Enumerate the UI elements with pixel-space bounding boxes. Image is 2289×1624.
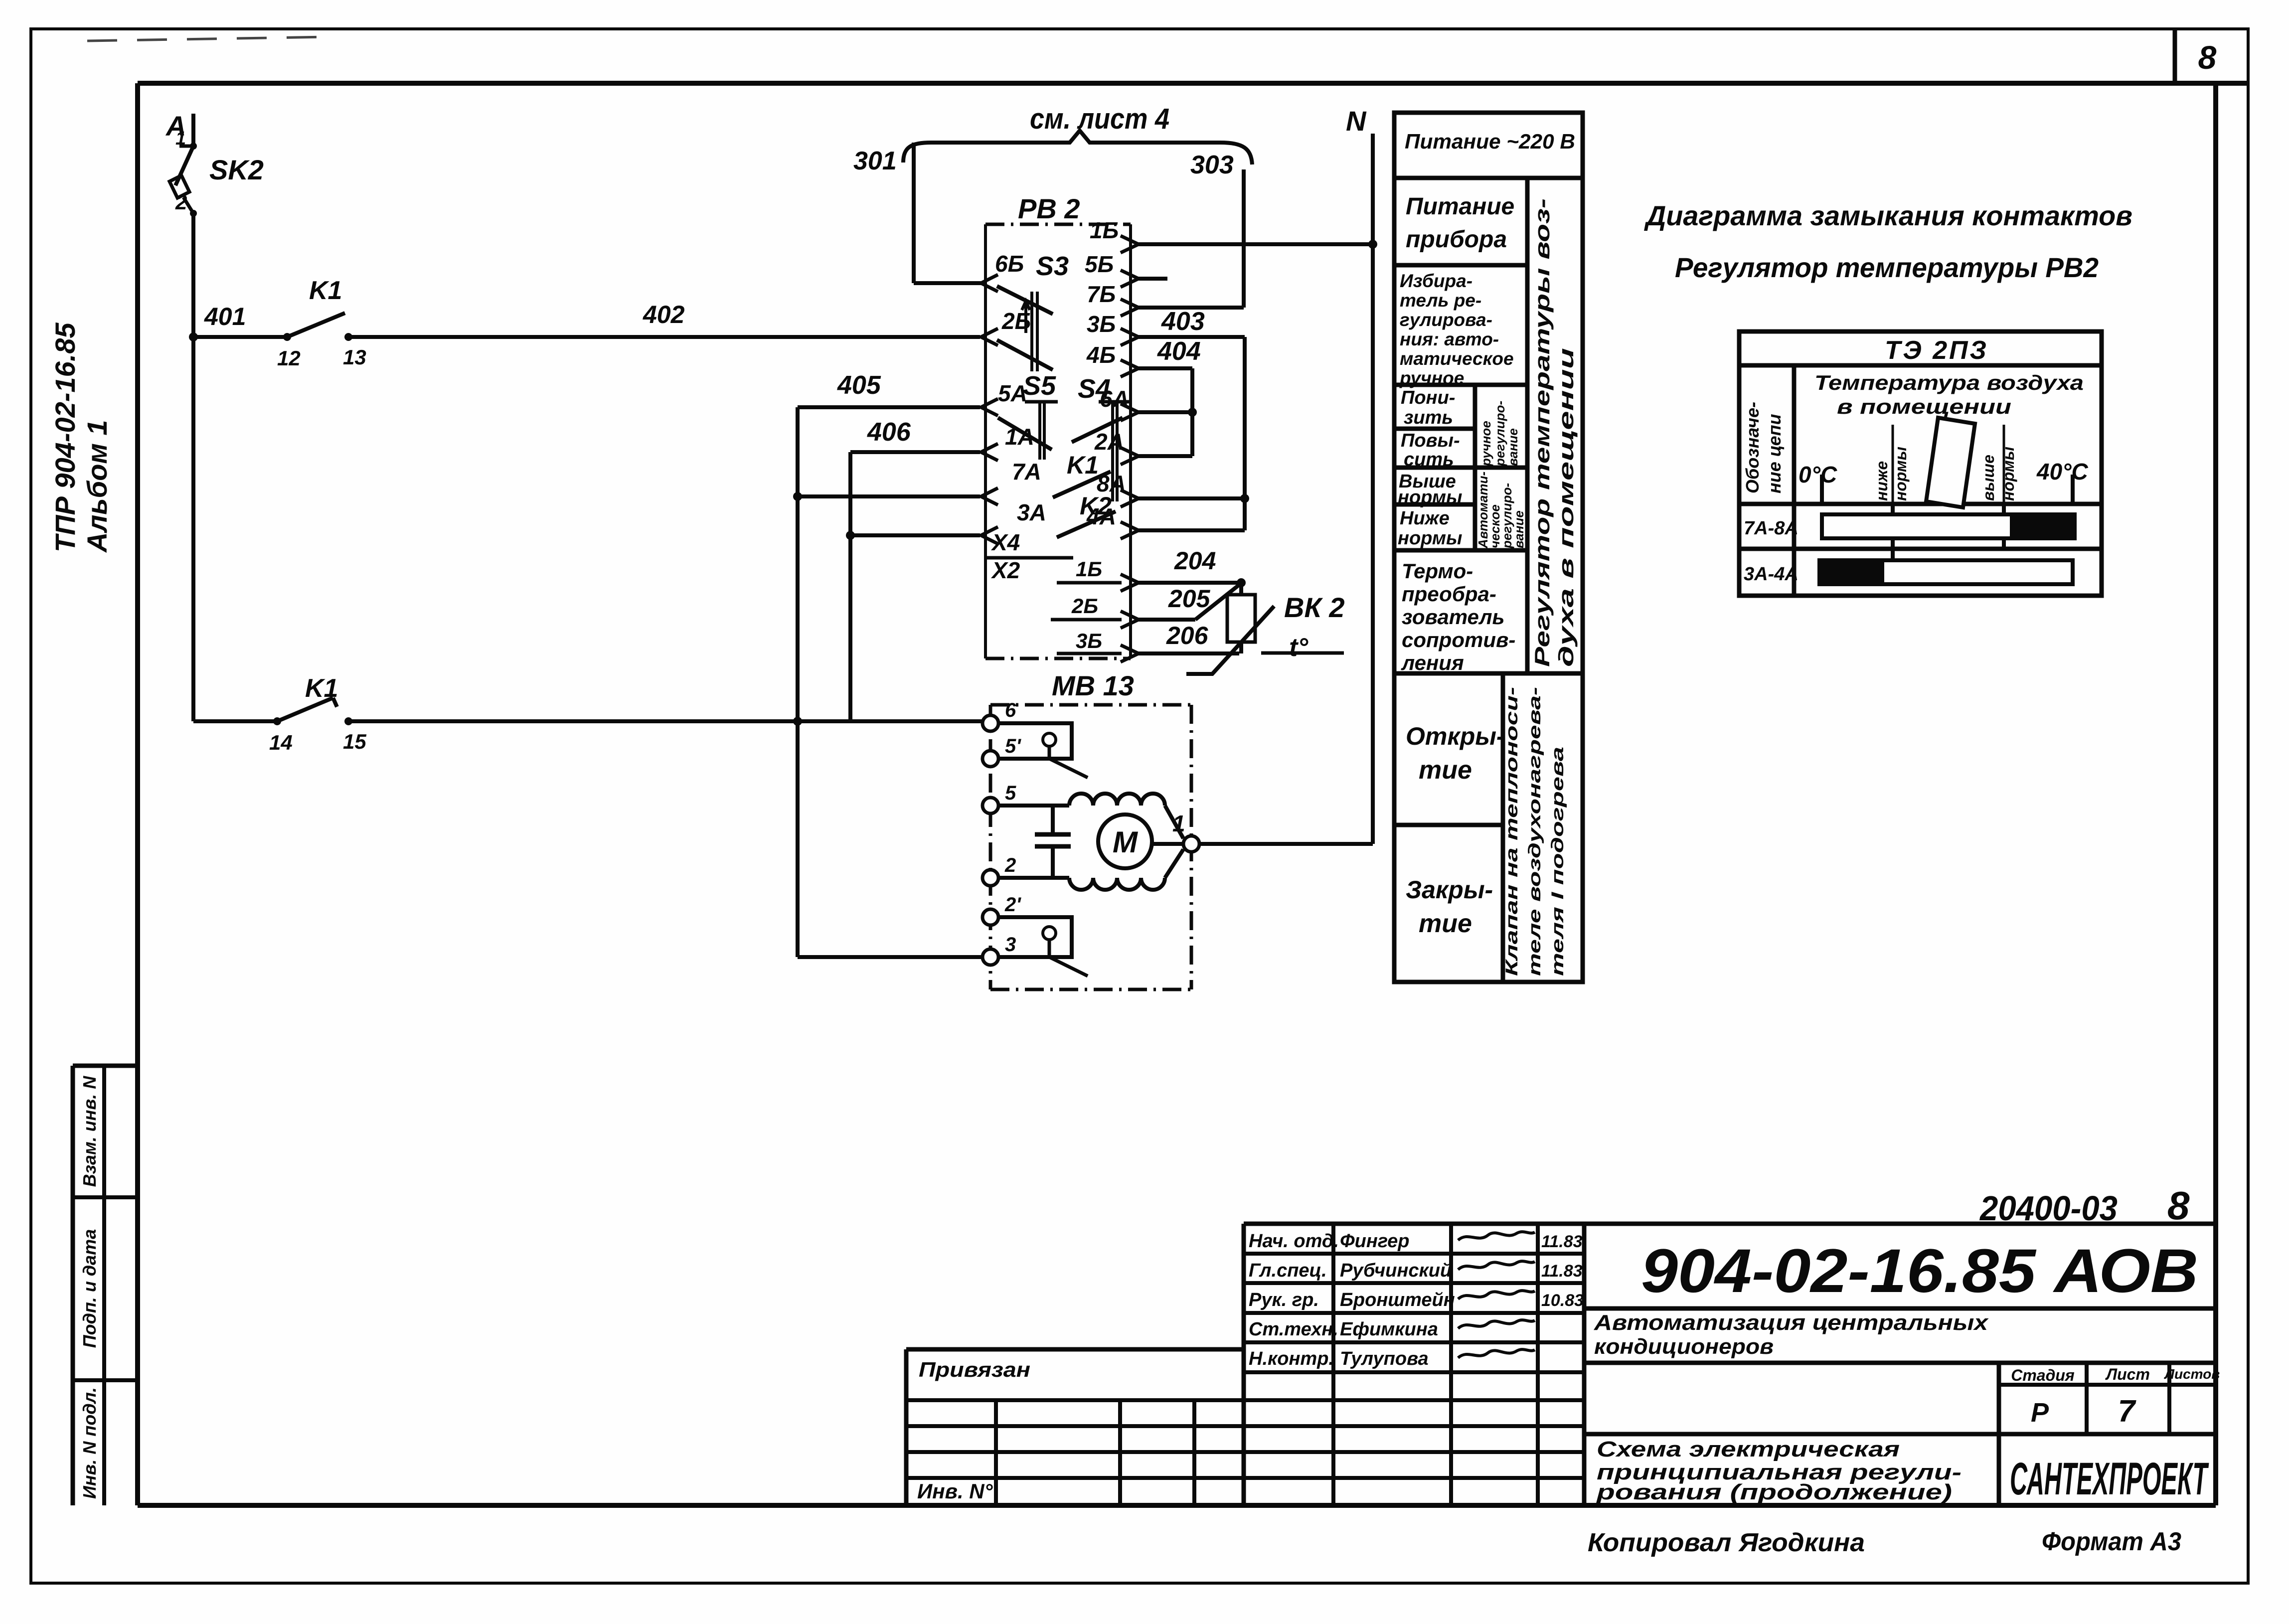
svg-text:Гл.спец.: Гл.спец. bbox=[1249, 1260, 1327, 1281]
svg-text:303: 303 bbox=[1190, 151, 1234, 179]
svg-text:7Б: 7Б bbox=[1087, 281, 1116, 307]
svg-text:2: 2 bbox=[1004, 854, 1016, 876]
svg-text:см. лист 4: см. лист 4 bbox=[1030, 103, 1169, 135]
svg-text:Бронштейн: Бронштейн bbox=[1340, 1290, 1455, 1310]
svg-text:403: 403 bbox=[1161, 307, 1205, 336]
svg-text:X4: X4 bbox=[990, 529, 1020, 555]
svg-text:ТЭ 2ПЗ: ТЭ 2ПЗ bbox=[1885, 336, 1988, 365]
svg-text:Регулятор температуры воз-: Регулятор температуры воз- bbox=[1530, 198, 1554, 667]
svg-text:ления: ления bbox=[1401, 651, 1464, 674]
svg-text:3Б: 3Б bbox=[1087, 311, 1116, 337]
svg-text:4Б: 4Б bbox=[1086, 342, 1116, 368]
svg-text:12: 12 bbox=[277, 346, 301, 370]
svg-text:2: 2 bbox=[175, 190, 187, 214]
svg-text:Альбом 1: Альбом 1 bbox=[81, 420, 113, 553]
svg-text:Копировал Ягодкина: Копировал Ягодкина bbox=[1588, 1528, 1865, 1557]
svg-text:Ефимкина: Ефимкина bbox=[1340, 1319, 1438, 1340]
svg-text:М: М bbox=[1113, 825, 1139, 859]
svg-text:SK2: SK2 bbox=[209, 154, 264, 185]
svg-text:N: N bbox=[1346, 105, 1367, 137]
svg-text:405: 405 bbox=[837, 371, 881, 400]
svg-text:2': 2' bbox=[1004, 894, 1021, 916]
svg-text:8: 8 bbox=[2167, 1183, 2190, 1228]
svg-text:8: 8 bbox=[2198, 39, 2217, 76]
svg-text:ТПР 904-02-16.85: ТПР 904-02-16.85 bbox=[49, 323, 81, 552]
svg-text:7: 7 bbox=[2118, 1394, 2136, 1429]
svg-text:Подп. и дата: Подп. и дата bbox=[79, 1229, 100, 1348]
svg-text:Ст.техн.: Ст.техн. bbox=[1249, 1319, 1338, 1340]
svg-text:40°С: 40°С bbox=[2036, 459, 2089, 485]
svg-text:Температура воздуха: Температура воздуха bbox=[1814, 371, 2084, 394]
svg-text:РВ 2: РВ 2 bbox=[1018, 193, 1080, 224]
svg-text:САНТЕХПРОЕКТ: САНТЕХПРОЕКТ bbox=[2010, 1454, 2209, 1504]
svg-text:15: 15 bbox=[343, 730, 366, 753]
svg-text:Стадия: Стадия bbox=[2011, 1366, 2075, 1384]
svg-text:904-02-16.85 АОВ: 904-02-16.85 АОВ bbox=[1641, 1237, 2198, 1305]
svg-text:1Б: 1Б bbox=[1076, 557, 1102, 581]
svg-text:духа в помещении: духа в помещении bbox=[1554, 348, 1578, 667]
svg-text:нормы: нормы bbox=[1398, 528, 1462, 549]
svg-text:Автоматизация центральных: Автоматизация центральных bbox=[1594, 1310, 1989, 1335]
svg-text:Диаграмма замыкания контакто: Диаграмма замыкания контактов bbox=[1644, 200, 2132, 231]
svg-text:Листов: Листов bbox=[2164, 1366, 2220, 1382]
svg-text:Н.контр.: Н.контр. bbox=[1249, 1348, 1334, 1369]
svg-text:K1: K1 bbox=[1067, 451, 1099, 479]
svg-text:5: 5 bbox=[1005, 782, 1016, 804]
svg-text:Термо-: Термо- bbox=[1402, 559, 1473, 583]
svg-text:7А-8А: 7А-8А bbox=[1744, 518, 1798, 539]
svg-text:Инв. N°: Инв. N° bbox=[917, 1479, 993, 1503]
svg-text:нормы: нормы bbox=[1999, 447, 2017, 501]
svg-text:6: 6 bbox=[1005, 699, 1016, 721]
svg-text:0°С: 0°С bbox=[1798, 462, 1837, 487]
svg-text:нормы: нормы bbox=[1398, 487, 1462, 508]
svg-text:тие: тие bbox=[1419, 909, 1472, 938]
svg-text:406: 406 bbox=[867, 418, 911, 447]
svg-text:Взам. инв. N: Взам. инв. N bbox=[79, 1076, 100, 1187]
svg-text:Регулятор температуры РВ2: Регулятор температуры РВ2 bbox=[1675, 252, 2099, 283]
svg-text:гулирова-: гулирова- bbox=[1400, 310, 1492, 330]
svg-text:Обозначе-: Обозначе- bbox=[1742, 402, 1763, 493]
svg-text:Повы-: Повы- bbox=[1401, 430, 1460, 451]
svg-text:205: 205 bbox=[1168, 585, 1211, 613]
svg-text:кондиционеров: кондиционеров bbox=[1594, 1334, 1774, 1359]
svg-text:сопротив-: сопротив- bbox=[1402, 628, 1515, 651]
svg-text:14: 14 bbox=[269, 731, 293, 754]
svg-text:матическое: матическое bbox=[1400, 348, 1514, 369]
svg-text:Лист: Лист bbox=[2105, 1365, 2150, 1383]
svg-text:Избира-: Избира- bbox=[1400, 271, 1472, 291]
svg-text:Рубчинский: Рубчинский bbox=[1340, 1260, 1452, 1281]
svg-text:11.83: 11.83 bbox=[1541, 1262, 1583, 1281]
svg-text:ВК 2: ВК 2 bbox=[1284, 592, 1345, 623]
svg-text:ручное: ручное bbox=[1399, 368, 1464, 388]
svg-text:301: 301 bbox=[853, 147, 897, 175]
svg-text:Рук. гр.: Рук. гр. bbox=[1249, 1290, 1319, 1310]
svg-text:вание: вание bbox=[1511, 510, 1526, 548]
svg-text:6Б: 6Б bbox=[995, 251, 1024, 277]
svg-text:401: 401 bbox=[204, 303, 246, 330]
svg-text:Ниже: Ниже bbox=[1400, 508, 1450, 529]
svg-text:Привязан: Привязан bbox=[919, 1358, 1030, 1381]
svg-text:1: 1 bbox=[175, 128, 186, 149]
svg-text:теля I подогрева: теля I подогрева bbox=[1548, 747, 1567, 976]
svg-text:Питание ~220 В: Питание ~220 В bbox=[1405, 130, 1575, 153]
svg-text:в помещении: в помещении bbox=[1837, 395, 2011, 418]
svg-text:2А: 2А bbox=[1094, 429, 1124, 455]
svg-text:сить: сить bbox=[1404, 449, 1454, 470]
svg-text:преобра-: преобра- bbox=[1402, 582, 1496, 606]
svg-text:K1: K1 bbox=[309, 276, 342, 305]
svg-text:1Б: 1Б bbox=[1090, 217, 1119, 243]
svg-text:S5: S5 bbox=[1023, 371, 1056, 401]
svg-text:X2: X2 bbox=[990, 557, 1020, 583]
svg-text:ние цепи: ние цепи bbox=[1764, 414, 1785, 493]
svg-text:Клапан на теплоноси-: Клапан на теплоноси- bbox=[1502, 687, 1521, 976]
svg-text:S4: S4 bbox=[1078, 374, 1111, 404]
svg-text:206: 206 bbox=[1166, 622, 1209, 650]
svg-text:МВ 13: МВ 13 bbox=[1052, 670, 1134, 701]
svg-text:Питание: Питание bbox=[1406, 193, 1514, 220]
svg-text:204: 204 bbox=[1174, 547, 1216, 575]
svg-text:404: 404 bbox=[1157, 337, 1201, 366]
svg-text:10.83: 10.83 bbox=[1541, 1291, 1584, 1310]
svg-text:ниже: ниже bbox=[1873, 461, 1891, 501]
svg-text:зить: зить bbox=[1404, 407, 1453, 428]
svg-text:K1: K1 bbox=[305, 674, 338, 703]
svg-text:зователь: зователь bbox=[1402, 605, 1504, 629]
svg-text:3Б: 3Б bbox=[1076, 629, 1102, 652]
svg-text:теле воздухонагрева-: теле воздухонагрева- bbox=[1525, 687, 1544, 976]
svg-text:прибора: прибора bbox=[1406, 226, 1507, 253]
svg-text:3А: 3А bbox=[1017, 499, 1046, 525]
svg-text:Тулупова: Тулупова bbox=[1340, 1348, 1429, 1369]
svg-text:рования (продолжение): рования (продолжение) bbox=[1596, 1480, 1952, 1504]
svg-text:11.83: 11.83 bbox=[1541, 1232, 1583, 1251]
svg-text:S3: S3 bbox=[1036, 251, 1069, 281]
svg-text:Закры-: Закры- bbox=[1406, 876, 1493, 904]
svg-text:7А: 7А bbox=[1012, 459, 1041, 485]
svg-text:Пони-: Пони- bbox=[1401, 387, 1455, 408]
svg-text:13: 13 bbox=[343, 345, 366, 369]
svg-text:Р: Р bbox=[2031, 1398, 2049, 1428]
svg-text:t°: t° bbox=[1289, 633, 1308, 662]
svg-text:ния: авто-: ния: авто- bbox=[1400, 329, 1499, 349]
svg-text:5Б: 5Б bbox=[1085, 251, 1114, 277]
svg-text:Инв. N подл.: Инв. N подл. bbox=[79, 1387, 100, 1499]
svg-text:Откры-: Откры- bbox=[1406, 722, 1505, 750]
svg-text:Нач. отд.: Нач. отд. bbox=[1249, 1231, 1339, 1252]
svg-text:402: 402 bbox=[643, 301, 685, 328]
svg-text:Схема электрическая: Схема электрическая bbox=[1597, 1437, 1900, 1462]
svg-text:ручное: ручное bbox=[1478, 421, 1493, 467]
svg-text:Фингер: Фингер bbox=[1340, 1231, 1410, 1252]
svg-text:выше: выше bbox=[1979, 455, 1997, 501]
svg-text:нормы: нормы bbox=[1892, 447, 1910, 501]
svg-text:тель ре-: тель ре- bbox=[1400, 290, 1481, 311]
svg-text:вание: вание bbox=[1505, 428, 1520, 466]
svg-text:тие: тие bbox=[1419, 756, 1472, 785]
svg-text:3А-4А: 3А-4А bbox=[1744, 564, 1798, 585]
svg-text:3: 3 bbox=[1005, 934, 1016, 956]
svg-text:2Б: 2Б bbox=[1071, 594, 1098, 618]
svg-text:5': 5' bbox=[1005, 735, 1021, 757]
svg-text:Формат А3: Формат А3 bbox=[2042, 1527, 2181, 1556]
